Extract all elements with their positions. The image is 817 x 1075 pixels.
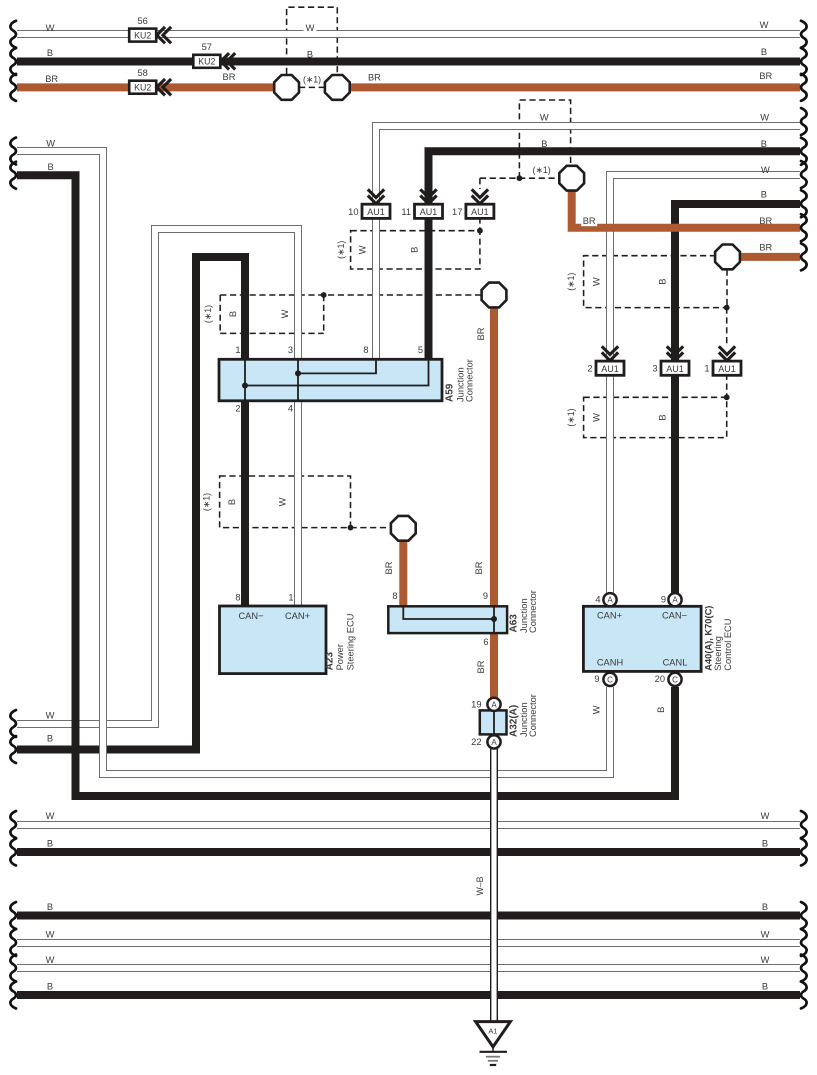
svg-text:(∗1): (∗1) [303, 75, 321, 85]
svg-text:CAN+: CAN+ [285, 611, 310, 621]
svg-text:AU1: AU1 [471, 207, 489, 217]
svg-text:8: 8 [392, 591, 397, 601]
svg-text:(∗1): (∗1) [202, 493, 212, 511]
svg-text:9: 9 [661, 595, 666, 605]
svg-text:BR: BR [476, 327, 486, 340]
svg-text:Control ECU: Control ECU [723, 619, 733, 671]
svg-text:9: 9 [594, 674, 599, 684]
svg-text:Connector: Connector [528, 590, 538, 633]
svg-text:11: 11 [401, 207, 411, 217]
svg-text:A23: A23 [325, 652, 336, 671]
svg-text:W: W [46, 138, 55, 148]
svg-text:8: 8 [363, 345, 368, 355]
svg-text:C: C [607, 675, 613, 684]
svg-text:AU1: AU1 [601, 364, 619, 374]
svg-text:A: A [491, 738, 497, 747]
svg-text:3: 3 [288, 345, 293, 355]
svg-text:B: B [541, 139, 547, 149]
svg-text:A59: A59 [445, 383, 456, 402]
svg-text:A1: A1 [488, 1027, 497, 1036]
svg-text:B: B [761, 139, 767, 149]
svg-text:B: B [228, 311, 238, 317]
svg-text:B: B [762, 839, 768, 849]
svg-text:BR: BR [368, 73, 381, 83]
svg-text:A: A [607, 596, 613, 605]
svg-text:BR: BR [759, 71, 772, 81]
svg-text:(∗1): (∗1) [203, 305, 213, 323]
svg-text:BR: BR [583, 216, 596, 226]
svg-text:W: W [760, 20, 769, 30]
svg-text:B: B [657, 279, 667, 285]
svg-text:KU2: KU2 [134, 82, 151, 92]
svg-text:A: A [491, 700, 497, 709]
svg-text:W: W [760, 112, 769, 122]
svg-text:Steering: Steering [713, 636, 723, 671]
svg-text:A32(A): A32(A) [509, 705, 520, 737]
svg-text:BR: BR [384, 561, 394, 574]
svg-text:(∗1): (∗1) [566, 273, 576, 291]
svg-text:B: B [47, 982, 53, 992]
svg-text:19: 19 [471, 699, 481, 709]
svg-text:BR: BR [474, 561, 484, 574]
svg-text:56: 56 [138, 16, 148, 26]
svg-text:CAN−: CAN− [662, 610, 687, 620]
svg-text:W: W [278, 497, 288, 506]
svg-text:Steering ECU: Steering ECU [346, 614, 356, 671]
svg-text:B: B [47, 839, 53, 849]
svg-text:W: W [761, 930, 770, 940]
svg-text:58: 58 [138, 68, 148, 78]
svg-text:Power: Power [335, 644, 345, 670]
svg-text:4: 4 [288, 404, 293, 414]
svg-text:B: B [762, 902, 768, 912]
svg-text:W: W [46, 710, 55, 720]
svg-text:17: 17 [452, 207, 462, 217]
svg-text:B: B [47, 48, 53, 58]
svg-text:W: W [591, 705, 601, 714]
svg-text:Connector: Connector [465, 359, 475, 402]
svg-text:B: B [762, 982, 768, 992]
svg-text:B: B [761, 190, 767, 200]
svg-text:(∗1): (∗1) [566, 408, 576, 426]
svg-text:W: W [761, 811, 770, 821]
svg-text:A40(A), K70(C): A40(A), K70(C) [704, 606, 714, 671]
svg-text:BR: BR [223, 72, 236, 82]
svg-text:6: 6 [483, 637, 488, 647]
svg-text:AU1: AU1 [367, 207, 385, 217]
svg-text:W: W [46, 23, 55, 33]
svg-text:W: W [591, 277, 601, 286]
svg-text:BR: BR [759, 243, 772, 253]
svg-text:4: 4 [595, 595, 600, 605]
svg-text:9: 9 [483, 591, 488, 601]
svg-text:C: C [672, 675, 678, 684]
svg-text:KU2: KU2 [134, 30, 151, 40]
svg-text:CANL: CANL [663, 658, 688, 668]
svg-text:B: B [410, 247, 420, 253]
svg-text:B: B [761, 47, 767, 57]
svg-text:B: B [656, 707, 666, 713]
svg-text:CAN+: CAN+ [597, 610, 622, 620]
svg-text:W: W [46, 811, 55, 821]
svg-text:W: W [591, 413, 601, 422]
svg-text:1: 1 [704, 364, 709, 374]
svg-text:CAN−: CAN− [238, 611, 263, 621]
svg-text:A63: A63 [509, 614, 520, 633]
svg-text:BR: BR [476, 660, 486, 673]
svg-text:AU1: AU1 [420, 207, 438, 217]
svg-text:B: B [47, 734, 53, 744]
svg-text:Connector: Connector [528, 694, 538, 737]
svg-text:CANH: CANH [597, 658, 623, 668]
svg-text:(∗1): (∗1) [533, 165, 551, 175]
svg-text:W: W [46, 930, 55, 940]
svg-text:W: W [358, 245, 368, 254]
svg-text:22: 22 [471, 737, 481, 747]
svg-text:1: 1 [235, 345, 240, 355]
svg-text:B: B [47, 162, 53, 172]
svg-text:BR: BR [759, 216, 772, 226]
svg-text:10: 10 [348, 207, 358, 217]
svg-text:W: W [280, 309, 290, 318]
svg-text:W: W [540, 112, 549, 122]
svg-text:1: 1 [288, 593, 293, 603]
svg-text:20: 20 [655, 674, 665, 684]
svg-text:B: B [227, 499, 237, 505]
svg-text:A: A [672, 596, 678, 605]
svg-text:AU1: AU1 [666, 364, 684, 374]
svg-text:W: W [761, 955, 770, 965]
svg-text:KU2: KU2 [198, 57, 215, 67]
svg-text:3: 3 [652, 364, 657, 374]
svg-text:2: 2 [587, 364, 592, 374]
svg-text:BR: BR [45, 74, 58, 84]
svg-text:(∗1): (∗1) [336, 241, 346, 259]
svg-text:5: 5 [418, 345, 423, 355]
svg-text:B: B [657, 414, 667, 420]
svg-text:W: W [306, 23, 315, 33]
svg-text:W: W [761, 165, 770, 175]
svg-text:8: 8 [235, 593, 240, 603]
svg-text:57: 57 [202, 42, 212, 52]
svg-text:B: B [47, 902, 53, 912]
svg-text:2: 2 [235, 404, 240, 414]
svg-text:B: B [307, 49, 313, 59]
svg-text:W: W [46, 955, 55, 965]
svg-text:AU1: AU1 [718, 364, 736, 374]
svg-text:W–B: W–B [475, 876, 485, 895]
